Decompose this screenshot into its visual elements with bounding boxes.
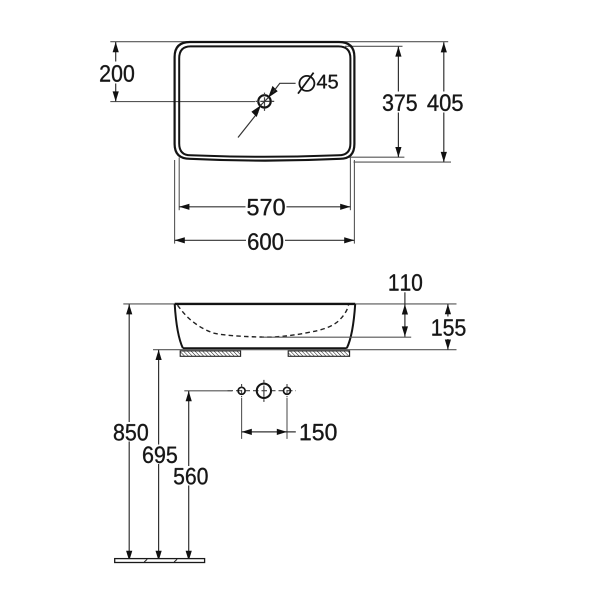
arrow down of 200 — [113, 91, 119, 101]
arrow down of 850 — [126, 551, 132, 561]
drain centre vertical dashed — [263, 380, 265, 402]
basin inner outline (plan) — [179, 46, 350, 156]
drain crosshair vertical — [264, 93, 266, 111]
extension line top (y=41.7) — [110, 41, 448, 43]
drain arrow upper (pointing down-left at circle) — [268, 86, 278, 98]
drain diagonal through circle — [260, 97, 269, 106]
tap hole dashed centre line — [228, 390, 297, 392]
drain centre circle (elevation) — [257, 384, 271, 398]
extension line 560 level (y=390.8) — [184, 390, 232, 392]
arrow up of 375 — [395, 46, 401, 56]
inner bowl dashed profile — [178, 305, 349, 337]
extension line left-inner below basin (x=179.2) — [178, 158, 180, 211]
extension line left-outer below basin (x=174.6) — [174, 160, 176, 244]
floor joint tick left — [144, 559, 147, 562]
value label 45 — [317, 75, 338, 89]
value label 850 — [114, 424, 148, 441]
arrow up of 405 — [441, 42, 447, 52]
value label 155 — [432, 319, 465, 335]
extension line center (y=101.6) — [110, 101, 255, 103]
arrow left of 600 — [175, 237, 185, 243]
extension line right fixing (x=287) — [286, 398, 288, 439]
arrow right of 570 — [340, 204, 350, 210]
basin outer outline (plan) — [175, 42, 355, 161]
value label 405 — [427, 94, 462, 111]
dimension 110 vertical line — [404, 292, 406, 337]
dimension 570 horizontal line — [179, 206, 245, 208]
floor strip — [115, 559, 205, 563]
value label 110 — [390, 274, 423, 291]
dimension 375 vertical line — [397, 46, 399, 91]
left fixing hole — [238, 387, 245, 394]
arrow down of 110 — [402, 326, 408, 336]
value label 375 — [383, 94, 417, 111]
value label 570 — [247, 199, 284, 216]
extension line basin bottom level (y=349.7) — [153, 349, 457, 351]
dimension 405 vertical line — [443, 42, 445, 91]
arrow right of 150 — [277, 429, 287, 435]
arrow left of 150 — [242, 429, 252, 435]
value label 600 — [248, 233, 283, 250]
left mounting pad hatched — [180, 351, 240, 356]
value label 200 — [100, 65, 134, 82]
arrow up of 850 — [126, 304, 132, 314]
arrow up of 695 — [156, 350, 162, 360]
extension line inner-top right (y=46.3) — [345, 45, 403, 47]
extension line left fixing (x=241.6) — [241, 398, 243, 439]
extension line rim level (y=303.9) — [123, 303, 456, 305]
arrow left of 570 — [179, 204, 189, 210]
drain hole circle — [258, 95, 270, 107]
diameter symbol of label — [299, 76, 314, 91]
dimension 600 horizontal line — [175, 239, 246, 241]
basin rim edge (elevation) — [175, 303, 356, 305]
arrow down of 155 — [445, 340, 451, 350]
drain arrow lower (pointing up-right at circle) — [251, 105, 261, 117]
left fixing hole vertical dashed — [241, 384, 243, 397]
extension line outer-bottom right (y=162.1) — [354, 161, 452, 163]
arrow down of 695 — [156, 551, 162, 561]
dimension 560 vertical line — [188, 391, 190, 466]
arrow down of 375 — [395, 147, 401, 157]
arrow up of 200 — [113, 42, 119, 52]
floor joint tick right — [174, 559, 177, 562]
arrow right of 600 — [344, 237, 354, 243]
leader line to label — [273, 83, 296, 92]
extension line right-outer below basin (x=354.4) — [353, 160, 355, 244]
dimension 200 vertical line — [115, 42, 117, 62]
basin left wall — [175, 304, 183, 348]
dimension 150 horizontal line — [242, 431, 296, 433]
basin right wall — [347, 304, 355, 348]
arrow up of 155 — [445, 304, 451, 314]
value label 695 — [143, 446, 177, 463]
value label 560 — [174, 468, 208, 485]
extension line inner-bottom right (y=157.2) — [349, 156, 404, 158]
drain diagonal dimension line lower — [238, 112, 258, 137]
drain crosshair horizontal — [256, 100, 275, 102]
extension line right-inner below basin (x=350.4) — [349, 158, 351, 211]
arrow down of 560 — [186, 551, 192, 561]
dimension 695 vertical line — [158, 350, 160, 445]
arrow up of 110 — [402, 304, 408, 314]
arrow up of 560 — [186, 391, 192, 401]
basin bottom edge — [183, 347, 347, 349]
value label 150 — [301, 424, 337, 441]
right fixing hole — [284, 387, 291, 394]
dimension 155 vertical line — [447, 304, 449, 316]
arrow down of 405 — [441, 152, 447, 162]
dimension 850 vertical line — [128, 304, 130, 422]
reference tick for 110 (y=336.6) — [262, 336, 411, 338]
right fixing hole vertical dashed — [286, 384, 288, 397]
right mounting pad hatched — [288, 351, 349, 356]
